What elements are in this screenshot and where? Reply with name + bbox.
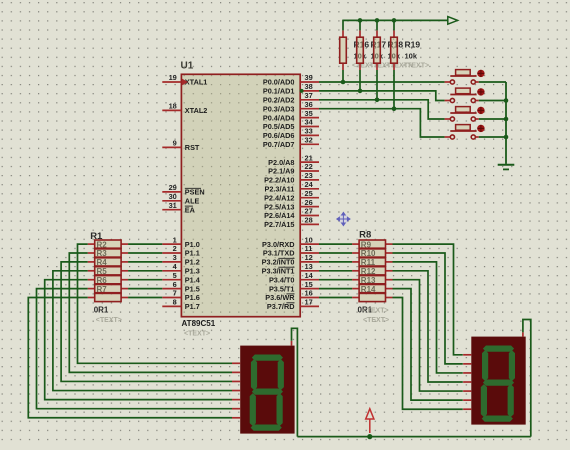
svg-text:36: 36	[305, 100, 313, 109]
svg-text:RST: RST	[185, 143, 200, 152]
push button SW1	[445, 70, 485, 85]
U1 pin 30 (ALE) stub + number + name	[162, 192, 199, 206]
svg-text:P1.0: P1.0	[185, 240, 200, 249]
DS1 segment A	[252, 355, 283, 361]
wire R19 bottom lead to P0.3 net	[393, 70, 395, 109]
junction R18 on VCC rail	[375, 18, 380, 23]
svg-text:28: 28	[305, 216, 313, 225]
DS1 segment pin b stub	[232, 371, 240, 373]
U1 XTAL1 clock input arrow	[182, 79, 188, 86]
junction R17 on VCC rail	[358, 18, 363, 23]
svg-text:<TEXT>: <TEXT>	[184, 331, 210, 338]
U1 pin 39 (P0.0/AD0) stub + number + name	[263, 73, 319, 87]
svg-text:P3.2/INT0: P3.2/INT0	[262, 258, 295, 267]
svg-text:12: 12	[305, 253, 313, 262]
svg-text:P3.7/RD: P3.7/RD	[267, 302, 295, 311]
DS2 segment C	[508, 384, 514, 417]
wire R1 element 6 to display DS1 segment pin 6	[37, 289, 233, 409]
resistor R1 network element 1	[88, 240, 128, 248]
junction R19 lead on P0.3 wire	[392, 106, 397, 111]
wire button SW2 to ground bus	[479, 100, 506, 102]
U1 pin 21 (P2.0/A8) stub + number + name	[268, 153, 319, 167]
power arrow terminal (VCC)	[448, 17, 458, 25]
DS2 segment A	[483, 346, 514, 352]
DS2 segment pin b stub	[463, 363, 471, 365]
U1 pin 4 (P1.3) stub + number + name	[162, 262, 200, 276]
DS2 segment F	[482, 350, 488, 381]
wire U1 pin 11 to R8 element 2	[319, 252, 352, 254]
DS2 segment G	[483, 380, 514, 386]
svg-text:26: 26	[305, 198, 313, 207]
svg-text:23: 23	[305, 171, 313, 180]
svg-text:P0.5/AD5: P0.5/AD5	[263, 122, 295, 131]
U1 pin 36 (P0.3/AD3) stub + number + name	[263, 100, 319, 114]
svg-text:24: 24	[305, 180, 314, 189]
svg-text:27: 27	[305, 207, 313, 216]
U1 pin 19 (XTAL1) stub + number + name	[162, 73, 207, 87]
svg-text:P0.3/AD3: P0.3/AD3	[263, 104, 295, 113]
U1 pin 33 (P0.6/AD6) stub + number + name	[263, 127, 319, 141]
svg-text:33: 33	[305, 127, 313, 136]
wire R1 element 3 to display DS1 segment pin 3	[61, 262, 232, 382]
svg-text:8: 8	[173, 298, 177, 307]
wire R16 top lead to VCC rail	[342, 20, 344, 31]
junction SW4 on ground bus	[504, 135, 509, 140]
svg-text:P1.1: P1.1	[185, 249, 200, 258]
wire R1 element 1 to U1 pin 1	[128, 243, 162, 245]
wire R8 element 6 to display DS2 segment pin 6	[393, 289, 463, 401]
junction SW2 on ground bus	[504, 98, 509, 103]
U1 pin 5 (P1.4) stub + number + name	[162, 271, 200, 285]
svg-text:14: 14	[305, 271, 314, 280]
DS2 segment pin d stub	[463, 381, 471, 383]
svg-text:32: 32	[305, 136, 313, 145]
wire bottom common net (horizontal)	[297, 436, 530, 438]
U1 pin 35 (P0.4/AD4) stub + number + name	[263, 109, 319, 123]
DS1 segment B	[278, 359, 284, 390]
U1 pin 1 (P1.0) stub + number + name	[162, 235, 200, 249]
svg-text:P3.6/WR: P3.6/WR	[265, 293, 295, 302]
svg-text:U1: U1	[181, 61, 194, 72]
U1 pin 34 (P0.5/AD5) stub + number + name	[263, 118, 319, 132]
U1 pin 16 (P3.6/WR) stub + number + name	[265, 289, 319, 303]
wire R1 element 1 to display DS1 segment pin 1	[78, 244, 233, 363]
resistor R8 network element 1	[352, 240, 392, 248]
svg-text:<TEXT>: <TEXT>	[403, 63, 429, 70]
U1 pin 31 (EA) stub + number + name	[162, 201, 195, 215]
svg-text:P3.1/TXD: P3.1/TXD	[263, 249, 295, 258]
wire R8 element 5 to display DS2 segment pin 5	[393, 280, 463, 391]
svg-text:<TEXT>: <TEXT>	[363, 308, 389, 315]
resistor R1 network element 3	[88, 258, 128, 266]
wire R17 bottom lead to P0.1 net	[359, 70, 361, 91]
wire R1 element 5 to display DS1 segment pin 5	[45, 280, 232, 400]
svg-text:P2.0/A8: P2.0/A8	[268, 158, 294, 167]
wire P0.0 (pin 39) to button SW1	[319, 81, 445, 83]
U1 pin 3 (P1.2) stub + number + name	[162, 253, 200, 267]
svg-text:P3.4/T0: P3.4/T0	[269, 275, 295, 284]
wire R1 element 7 to U1 pin 7	[128, 297, 162, 299]
svg-text:P0.6/AD6: P0.6/AD6	[263, 131, 295, 140]
wire R17 top lead to VCC rail	[359, 20, 361, 31]
wire U1 pin 15 to R8 element 6	[319, 288, 352, 290]
svg-text:19: 19	[169, 73, 177, 82]
DS1 segment D	[251, 425, 282, 431]
wire U1 pin 13 to R8 element 4	[319, 270, 352, 272]
resistor R1 network element 5	[88, 276, 128, 284]
wire VCC rail (top horizontal)	[343, 19, 448, 21]
svg-text:21: 21	[305, 153, 313, 162]
svg-text:R8: R8	[359, 230, 371, 241]
junction R18 lead on P0.2 wire	[375, 98, 380, 103]
svg-text:P0.0/AD0: P0.0/AD0	[263, 78, 295, 87]
resistor R8 network element 2	[352, 249, 392, 257]
U1 pin 2 (P1.1) stub + number + name	[162, 244, 200, 258]
DS1 segment pin d stub	[232, 390, 240, 392]
svg-text:13: 13	[305, 262, 313, 271]
resistor R8 network element 3	[352, 258, 392, 266]
svg-text:PSEN: PSEN	[185, 188, 205, 197]
DS1 segment F	[251, 359, 257, 390]
svg-text:P1.7: P1.7	[185, 302, 200, 311]
DS1 segment pin g stub	[232, 417, 240, 419]
U1 pin 37 (P0.2/AD2) stub + number + name	[263, 91, 319, 105]
svg-text:1: 1	[173, 235, 177, 244]
U1 pin 28 (P2.7/A15) stub + number + name	[264, 216, 319, 230]
push button SW2	[445, 88, 485, 103]
DS1 segment pin c stub	[232, 380, 240, 382]
junction R16 lead on P0.0 wire	[341, 80, 346, 85]
svg-text:P3.0/RXD: P3.0/RXD	[262, 240, 294, 249]
DS1 common pin stub (top)	[291, 341, 293, 346]
U1 pin 10 (P3.0/RXD) stub + number + name	[262, 235, 319, 249]
svg-text:EA: EA	[185, 205, 196, 214]
svg-text:15: 15	[305, 280, 313, 289]
resistor R8 network element 6	[352, 285, 392, 293]
resistor R19 (10k pull-up)	[391, 30, 398, 70]
wire U1 pin 14 to R8 element 5	[319, 279, 352, 281]
svg-text:P3.5/T1: P3.5/T1	[269, 284, 295, 293]
resistor R8 network element 5	[352, 276, 392, 284]
wire R16 bottom lead to P0.0 net	[342, 70, 344, 82]
svg-text:P2.7/A15: P2.7/A15	[264, 220, 294, 229]
wire R8 element 2 to display DS2 segment pin 2	[393, 253, 463, 364]
svg-text:P2.4/A12: P2.4/A12	[264, 193, 294, 202]
U1 pin 6 (P1.5) stub + number + name	[162, 280, 200, 294]
wire R1 element 5 to U1 pin 5	[128, 279, 162, 281]
svg-text:25: 25	[305, 189, 313, 198]
wire R1 element 6 to U1 pin 6	[128, 288, 162, 290]
resistor R8 network element 4	[352, 267, 392, 275]
junction SW3 on ground bus	[504, 117, 509, 122]
ground symbol	[498, 165, 515, 170]
wire DS2 common to bottom net	[523, 320, 531, 437]
U1 pin 24 (P2.3/A11) stub + number + name	[264, 180, 319, 194]
svg-text:<TEXT>: <TEXT>	[363, 317, 389, 324]
svg-text:P2.1/A9: P2.1/A9	[268, 167, 294, 176]
svg-text:<TEXT>: <TEXT>	[96, 317, 122, 324]
svg-text:10: 10	[305, 235, 313, 244]
wire button SW4 to ground bus	[479, 136, 506, 138]
svg-text:3: 3	[173, 253, 177, 262]
wire DS1 common to bottom net	[292, 328, 298, 436]
resistor R8 network element 7	[352, 293, 392, 301]
U1 pin 12 (P3.2/INT0) stub + number + name	[262, 253, 319, 267]
U1 pin 9 (RST) stub + number + name	[162, 139, 200, 153]
resistor R1 network element 4	[88, 267, 128, 275]
U1 pin 14 (P3.4/T0) stub + number + name	[269, 271, 319, 285]
U1 pin 32 (P0.7/AD7) stub + number + name	[263, 136, 319, 150]
wire R8 element 3 to display DS2 segment pin 3	[393, 262, 463, 373]
svg-text:37: 37	[305, 91, 313, 100]
DS2 segment pin c stub	[463, 372, 471, 374]
svg-text:P1.3: P1.3	[185, 267, 200, 276]
common terminal red arrow	[366, 409, 374, 433]
resistor R1 network element 7	[88, 293, 128, 301]
U1 pin 38 (P0.1/AD1) stub + number + name	[263, 82, 319, 96]
svg-text:34: 34	[305, 118, 314, 127]
wire R1 element 2 to display DS1 segment pin 2	[69, 253, 232, 372]
wire R1 element 7 to display DS1 segment pin 7	[28, 298, 232, 418]
push button SW3	[445, 107, 485, 122]
wire R1 element 4 to U1 pin 4	[128, 270, 162, 272]
wire R8 element 1 to display DS2 segment pin 1	[393, 244, 463, 355]
svg-text:P3.3/INT1: P3.3/INT1	[262, 267, 295, 276]
U1 pin 15 (P3.5/T1) stub + number + name	[269, 280, 319, 294]
svg-text:P2.2/A10: P2.2/A10	[264, 176, 294, 185]
DS2 common pin stub (top)	[522, 332, 524, 336]
svg-text:P0.2/AD2: P0.2/AD2	[263, 96, 295, 105]
resistor R16 (10k pull-up)	[340, 30, 347, 70]
svg-text:35: 35	[305, 109, 313, 118]
svg-text:17: 17	[305, 298, 313, 307]
7-segment display DS1 body	[240, 346, 294, 434]
wire P0.1 (pin 38) to button SW2	[319, 91, 445, 101]
svg-text:6: 6	[173, 280, 177, 289]
U1 pin 22 (P2.1/A9) stub + number + name	[268, 162, 319, 176]
svg-text:31: 31	[169, 201, 177, 210]
svg-text:P1.5: P1.5	[185, 284, 200, 293]
DS1 segment E	[250, 393, 256, 426]
DS1 segment pin a stub	[232, 362, 240, 364]
DS2 segment B	[509, 350, 515, 381]
U1 pin 26 (P2.5/A13) stub + number + name	[264, 198, 319, 212]
svg-text:9: 9	[173, 139, 177, 148]
wire button SW3 to ground bus	[479, 118, 506, 120]
svg-text:AT89C51: AT89C51	[182, 319, 216, 328]
DS1 segment C	[277, 393, 283, 426]
7-segment display DS2 body	[471, 337, 525, 425]
DS2 segment pin e stub	[463, 390, 471, 392]
svg-text:P1.4: P1.4	[185, 275, 201, 284]
DS1 segment pin f stub	[232, 408, 240, 410]
svg-text:22: 22	[305, 162, 313, 171]
DS2 segment pin a stub	[463, 354, 471, 356]
DS2 segment E	[481, 384, 487, 417]
U1 pin 8 (P1.7) stub + number + name	[162, 298, 200, 312]
junction R17 lead on P0.1 wire	[358, 89, 363, 94]
U1 pin 25 (P2.4/A12) stub + number + name	[264, 189, 319, 203]
DS2 segment D	[482, 416, 513, 422]
DS1 segment pin e stub	[232, 399, 240, 401]
svg-text:R19: R19	[405, 40, 421, 50]
DS2 segment pin g stub	[463, 408, 471, 410]
wire R1 element 4 to display DS1 segment pin 4	[53, 271, 232, 391]
svg-text:0R1: 0R1	[94, 306, 109, 315]
svg-text:18: 18	[169, 102, 177, 111]
U1 pin 13 (P3.3/INT1) stub + number + name	[262, 262, 319, 276]
svg-text:2: 2	[173, 244, 177, 253]
svg-text:16: 16	[305, 289, 313, 298]
wire ground bus (vertical)	[505, 82, 507, 164]
wire U1 pin 12 to R8 element 3	[319, 261, 352, 263]
IC U1 (AT89C51 microcontroller) body	[181, 74, 300, 316]
svg-text:P2.3/A11: P2.3/A11	[264, 185, 294, 194]
junction on P0.1 pin at IC edge	[300, 89, 304, 93]
svg-text:10k: 10k	[405, 52, 418, 61]
svg-text:29: 29	[169, 183, 177, 192]
svg-text:P1.2: P1.2	[185, 258, 200, 267]
cursor crosshair (move icon)	[337, 212, 350, 225]
svg-text:39: 39	[305, 73, 313, 82]
svg-text:38: 38	[305, 82, 313, 91]
wire R1 element 3 to U1 pin 3	[128, 261, 162, 263]
wire button SW1 to ground bus	[479, 81, 506, 83]
junction common terminal on bottom net	[367, 434, 372, 439]
U1 pin 29 (PSEN) stub + number + name	[162, 183, 204, 197]
push button SW4	[445, 125, 485, 139]
DS2 segment pin f stub	[463, 399, 471, 401]
svg-text:P2.6/A14: P2.6/A14	[264, 211, 295, 220]
svg-text:11: 11	[305, 244, 313, 253]
wire R8 element 4 to display DS2 segment pin 4	[393, 271, 463, 382]
U1 pin 7 (P1.6) stub + number + name	[162, 289, 200, 303]
wire U1 pin 16 to R8 element 7	[319, 297, 352, 299]
svg-text:P1.6: P1.6	[185, 293, 200, 302]
svg-text:XTAL1: XTAL1	[185, 78, 208, 87]
U1 pin 18 (XTAL2) stub + number + name	[162, 102, 207, 116]
wire R8 element 7 to display DS2 segment pin 7	[393, 298, 463, 410]
wire P0.3 (pin 36) to button SW4	[319, 109, 445, 137]
svg-text:P0.1/AD1: P0.1/AD1	[263, 87, 295, 96]
U1 pin 11 (P3.1/TXD) stub + number + name	[263, 244, 319, 258]
svg-text:XTAL2: XTAL2	[185, 106, 208, 115]
svg-text:P2.5/A13: P2.5/A13	[264, 202, 294, 211]
resistor R1 network element 6	[88, 285, 128, 293]
svg-text:7: 7	[173, 289, 177, 298]
wire R18 bottom lead to P0.2 net	[376, 70, 378, 100]
wire P0.2 (pin 37) to button SW3	[319, 100, 445, 119]
U1 pin 27 (P2.6/A14) stub + number + name	[264, 207, 319, 221]
U1 pin 17 (P3.7/RD) stub + number + name	[267, 298, 319, 312]
wire R18 top lead to VCC rail	[376, 20, 378, 31]
resistor R17 (10k pull-up)	[357, 30, 364, 70]
svg-text:30: 30	[169, 192, 177, 201]
wire U1 pin 10 to R8 element 1	[319, 243, 352, 245]
svg-text:P0.4/AD4: P0.4/AD4	[263, 113, 296, 122]
DS1 segment G	[252, 389, 283, 395]
wire R19 top lead to VCC rail	[393, 20, 395, 31]
svg-text:P0.7/AD7: P0.7/AD7	[263, 140, 295, 149]
svg-text:ALE: ALE	[185, 197, 200, 206]
resistor R1 network element 2	[88, 249, 128, 257]
resistor R18 (10k pull-up)	[374, 30, 381, 70]
U1 pin 23 (P2.2/A10) stub + number + name	[264, 171, 319, 185]
junction R19 on VCC rail	[392, 18, 397, 23]
wire R1 element 2 to U1 pin 2	[128, 252, 162, 254]
svg-text:5: 5	[173, 271, 177, 280]
